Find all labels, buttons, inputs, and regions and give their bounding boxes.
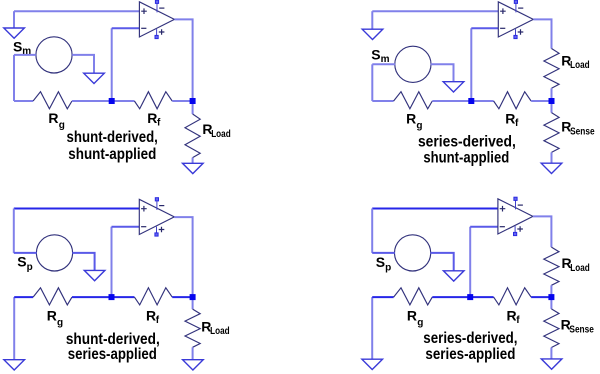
svg-text:f: f xyxy=(156,315,160,326)
svg-text:R: R xyxy=(146,307,156,323)
svg-text:S: S xyxy=(376,254,385,270)
svg-text:series-applied: series-applied xyxy=(425,346,515,363)
svg-text:S: S xyxy=(13,39,22,55)
resistor Rf (TL) xyxy=(134,92,172,109)
wire: TL left vertical source to bottom rail xyxy=(13,55,15,101)
svg-text:S: S xyxy=(17,253,26,269)
wire: BR source right lead to ground xyxy=(430,253,453,271)
wire: BL rail Rf to node B xyxy=(172,296,192,298)
svg-text:p: p xyxy=(385,263,391,274)
wire: TR horizontal to op-amp - input xyxy=(471,27,498,29)
svg-text:series-applied: series-applied xyxy=(68,346,157,363)
node B (TL output node) xyxy=(190,98,196,104)
op-amp U1 (TL) xyxy=(139,0,174,38)
svg-text:R: R xyxy=(505,111,515,127)
wire: TL top rail to op-amp + input xyxy=(14,10,139,12)
wire: BR RSense to ground xyxy=(550,348,552,359)
svg-text:series-derived,: series-derived, xyxy=(423,330,517,347)
wire: BL source right lead to ground xyxy=(72,253,94,271)
svg-text:Load: Load xyxy=(570,60,590,71)
wire: BL left vertical top rail to source xyxy=(13,209,15,253)
ground TR at + input net xyxy=(362,29,383,39)
wire: TR source right lead to ground xyxy=(431,64,454,81)
wire: TL rail node A to Rf xyxy=(112,100,135,102)
wire: BL RLoad to ground xyxy=(192,347,194,359)
wire: TR node A up vertical xyxy=(470,28,472,101)
wire: TL rail Rg to node A xyxy=(72,100,112,102)
wire: TR RLoad to node B xyxy=(551,88,553,101)
wire: BL rail Rg to node A xyxy=(72,296,112,298)
node A (BL summing node) xyxy=(109,294,115,300)
resistor Rg (BL) xyxy=(33,288,72,305)
wire: BR node B down to RSense xyxy=(550,297,552,309)
wire: BR node A up vertical xyxy=(469,227,471,297)
resistor Rf (BR) xyxy=(494,288,531,305)
wire: TR op-amp output down to RLoad xyxy=(533,19,551,48)
wire: BR op-amp output down to RLoad xyxy=(533,216,552,247)
wire: TL node B down to RLoad xyxy=(192,101,194,114)
svg-text:m: m xyxy=(381,54,390,65)
source Sp circle (BR) xyxy=(395,235,431,271)
wire: BL rail left end down xyxy=(13,297,15,360)
svg-text:Load: Load xyxy=(570,263,590,274)
wire: TR bottom rail left segment xyxy=(372,100,393,102)
wire: TR source left lead xyxy=(372,63,395,65)
op-amp U2 (TR) xyxy=(498,0,533,38)
ground BR bottom left xyxy=(362,359,383,369)
wire: BR left vertical top rail to source xyxy=(371,209,373,253)
source Sm circle (TR) xyxy=(395,46,431,82)
source Sm circle (TL) xyxy=(36,37,72,73)
node B (BR feedback tap) xyxy=(548,294,554,300)
svg-text:S: S xyxy=(371,46,380,62)
node B (BL output node) xyxy=(190,294,196,300)
wire: TR drop from top rail to ground xyxy=(371,11,373,29)
wire: BR RLoad to node B xyxy=(550,285,552,297)
svg-text:g: g xyxy=(59,120,65,131)
op-amp U4 (BR) xyxy=(498,197,533,235)
resistor Rf (BL) xyxy=(134,288,172,305)
wire: TR left vertical source to bottom rail xyxy=(371,64,373,101)
op-amp U3 (BL) xyxy=(139,198,174,236)
ground TL below RLoad xyxy=(183,163,204,173)
svg-text:g: g xyxy=(417,318,423,329)
wire: BL node B down to RLoad xyxy=(192,297,194,309)
wire: TR top rail to op-amp + input xyxy=(372,10,498,12)
svg-text:p: p xyxy=(27,262,33,273)
wire: TL bottom rail left segment xyxy=(14,100,33,102)
resistor RLoad (TL) xyxy=(185,114,200,158)
svg-text:shunt-derived,: shunt-derived, xyxy=(67,129,158,146)
wire: BL rail node A to Rf xyxy=(112,296,135,298)
wire: TR RSense to ground xyxy=(551,152,553,163)
svg-text:R: R xyxy=(407,308,417,324)
svg-text:g: g xyxy=(57,317,63,328)
wire: BR rail Rg to node A xyxy=(432,296,470,298)
resistor Rg (BR) xyxy=(394,288,433,305)
wire: BR top rail to op-amp + input xyxy=(372,208,498,210)
svg-text:Sense: Sense xyxy=(570,126,595,137)
resistor RSense (BR) xyxy=(544,309,559,348)
resistor RLoad (BL) xyxy=(185,309,200,347)
wire: BL source left lead xyxy=(14,252,37,254)
wire: TL RLoad to ground xyxy=(192,158,194,164)
wire: BR rail Rf to node B xyxy=(531,296,551,298)
node B (TR feedback tap) xyxy=(549,98,555,104)
svg-text:f: f xyxy=(157,118,161,129)
svg-text:R: R xyxy=(147,110,157,126)
wire: BL horizontal to op-amp - input xyxy=(112,226,140,228)
ground BL bottom left xyxy=(4,360,25,370)
resistor RLoad (TR) xyxy=(544,49,559,89)
wire: TR rail node A to Rf xyxy=(471,100,493,102)
resistor Rf (TR) xyxy=(494,92,531,109)
svg-text:f: f xyxy=(516,315,520,326)
wire: BL op-amp output to node B xyxy=(174,217,192,297)
wire: BR horizontal to op-amp - input xyxy=(470,226,498,228)
resistor Rg (TR) xyxy=(394,92,433,109)
wire: BR bottom rail left segment xyxy=(372,296,393,298)
wire: TR node B down to RSense xyxy=(551,101,553,113)
ground TL right of source xyxy=(84,73,105,83)
wire: TL drop from top rail to ground xyxy=(13,11,15,28)
wire: TL horizontal to op-amp - input xyxy=(112,27,140,29)
ground BL below RLoad xyxy=(183,360,204,370)
source Sp circle (BL) xyxy=(36,235,72,271)
wire: TL source left lead xyxy=(14,54,36,56)
svg-text:R: R xyxy=(406,111,416,127)
node A (TR summing node) xyxy=(468,98,474,104)
resistor Rg (TL) xyxy=(33,92,72,109)
resistor RLoad (BR) xyxy=(544,247,559,285)
svg-text:shunt-applied: shunt-applied xyxy=(423,149,509,166)
svg-text:f: f xyxy=(515,118,519,129)
svg-text:R: R xyxy=(48,110,58,126)
wire: TL source right lead to ground xyxy=(72,55,94,73)
ground BL right of source xyxy=(84,270,105,280)
svg-text:Load: Load xyxy=(211,129,231,140)
ground TR right of source xyxy=(443,82,464,92)
svg-text:series-derived,: series-derived, xyxy=(418,134,516,151)
wire: BR source left lead xyxy=(372,252,395,254)
wire: BR rail left end down xyxy=(371,297,373,359)
wire: BL node A up vertical xyxy=(111,227,113,297)
node A (BR summing node) xyxy=(467,294,473,300)
wire: TL op-amp output to node B xyxy=(174,19,192,101)
svg-text:g: g xyxy=(416,121,422,132)
svg-text:Sense: Sense xyxy=(569,324,594,335)
ground BR right of source xyxy=(443,271,464,281)
ground TL at + input net xyxy=(4,28,25,38)
svg-text:Load: Load xyxy=(210,326,230,337)
svg-text:R: R xyxy=(507,307,517,323)
wire: BL bottom rail left segment xyxy=(14,296,33,298)
wire: TL node A up vertical xyxy=(111,28,113,101)
wire: TR rail Rf to node B xyxy=(531,100,551,102)
node A (TL summing node) xyxy=(109,98,115,104)
resistor RSense (TR) xyxy=(544,113,559,153)
wire: TL rail Rf to node B xyxy=(172,100,192,102)
wire: BL top rail to op-amp + input xyxy=(14,208,140,210)
wire: TR rail Rg to node A xyxy=(432,100,471,102)
wire: BR rail node A to Rf xyxy=(470,296,493,298)
ground BR below RSense xyxy=(541,359,562,369)
svg-text:R: R xyxy=(47,307,57,323)
ground TR below RSense xyxy=(541,163,562,173)
svg-text:shunt-applied: shunt-applied xyxy=(68,146,156,163)
